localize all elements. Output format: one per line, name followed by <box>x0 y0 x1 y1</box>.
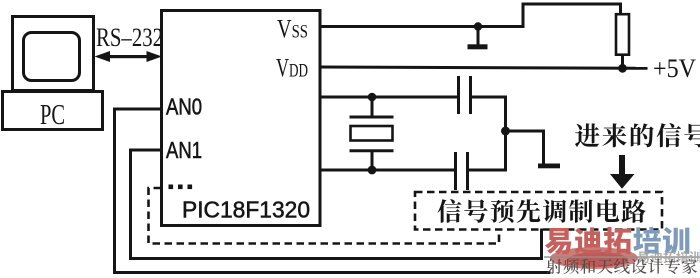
wire C1 to node A <box>471 97 506 131</box>
watermark blue text 培训 <box>633 227 689 255</box>
dashed bus extra pins to modulation box <box>149 188 500 244</box>
junction dot OSC1 crystal <box>368 93 377 102</box>
watermark red blob <box>550 247 638 269</box>
svg-text:AN1: AN1 <box>166 137 202 163</box>
capacitor C1 right plate <box>469 78 472 113</box>
svg-text:PC: PC <box>40 100 65 131</box>
ground G1 bar <box>468 44 488 49</box>
resistor R1 <box>616 14 629 55</box>
wire OSC1 <box>320 96 457 99</box>
label incoming signal text 进来的信号 <box>575 123 700 147</box>
label modulation circuit text 信号预先调制电路 <box>438 199 646 223</box>
watermark slogan text 射频和天线设计专家 <box>547 259 698 275</box>
modulation circuit dashed box <box>415 192 662 230</box>
wire OSC2 <box>320 169 454 172</box>
PC monitor <box>13 17 94 91</box>
crystal Y1 top plate <box>351 116 392 119</box>
crystal Y1 bottom plate <box>351 149 392 152</box>
capacitor C2 right plate <box>466 154 469 189</box>
wire node A to ground G2 <box>506 131 544 162</box>
junction dot OSC2 crystal <box>368 166 377 175</box>
watermark red text 易迪拓 <box>545 227 631 255</box>
wire AN0 loop <box>115 109 550 273</box>
wire AN1 loop <box>131 150 542 259</box>
capacitor C1 left plate <box>457 78 460 113</box>
wire C2 to node A <box>468 132 506 170</box>
wire VDD +5V rail <box>320 67 646 68</box>
PC screen <box>24 33 80 81</box>
wire Vss riser and top rail to resistor <box>523 4 621 27</box>
wire Vss pin to riser <box>320 25 523 28</box>
crystal Y1 bottom lead <box>371 152 374 170</box>
svg-text:RS–232: RS–232 <box>96 23 163 52</box>
microcontroller U1 PIC18F1320 box <box>162 11 321 226</box>
wire resistor to +5V rail <box>621 55 624 68</box>
svg-text:AN0: AN0 <box>166 94 202 120</box>
crystal Y1 body <box>351 126 393 141</box>
svg-text:PIC18F1320: PIC18F1320 <box>182 197 310 223</box>
incoming signal arrow <box>610 155 635 189</box>
RS-232 double arrow <box>95 51 163 62</box>
junction dot node A <box>501 127 510 136</box>
junction dot Vss ground <box>474 22 482 30</box>
junction dot +5V node <box>618 64 627 73</box>
watermark gray small text 易迪拓培训 <box>637 251 700 263</box>
watermark gray underline <box>544 256 700 258</box>
ellipsis more pins <box>169 185 193 190</box>
svg-text:+5V: +5V <box>653 54 696 83</box>
wire ground G1 stub <box>477 27 480 45</box>
crystal Y1 top lead <box>371 97 374 116</box>
PC base <box>3 92 103 130</box>
capacitor C2 left plate <box>454 154 457 189</box>
ground G2 bar <box>538 164 560 169</box>
